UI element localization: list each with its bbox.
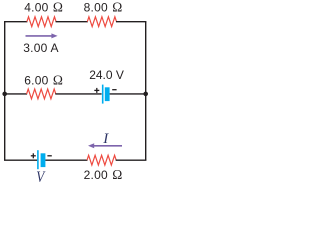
node B (right junction dot) <box>143 92 148 97</box>
resistor R2 8.00 ohm <box>87 17 116 27</box>
battery B2 V positive plate (long thin) <box>37 150 39 169</box>
wire middle branch left segment <box>4 93 27 95</box>
svg-text:I: I <box>102 131 109 147</box>
battery B1 plus sign <box>94 88 99 93</box>
battery B2 negative plate (short thick) <box>41 153 46 167</box>
svg-text:V: V <box>36 169 45 186</box>
node A (left junction dot) <box>2 92 7 97</box>
current arrow 3.00 A (points right) <box>26 33 58 38</box>
resistor R4 2.00 ohm <box>87 155 116 165</box>
wire bottom branch center segment <box>45 159 87 161</box>
wire top branch middle segment <box>56 21 88 23</box>
svg-text:4.00Ω: 4.00Ω <box>24 0 63 15</box>
battery B1 24.0 V positive plate (long thin) <box>102 85 104 104</box>
svg-text:24.0 V: 24.0 V <box>89 68 124 82</box>
wire middle branch center segment <box>55 93 101 95</box>
wire middle branch right segment <box>110 93 147 95</box>
battery B1 minus sign <box>112 89 116 91</box>
battery B2 minus sign <box>47 155 51 157</box>
battery B2 plus sign <box>31 153 36 158</box>
svg-text:8.00Ω: 8.00Ω <box>84 0 123 15</box>
svg-text:2.00Ω: 2.00Ω <box>84 167 123 182</box>
svg-text:6.00Ω: 6.00Ω <box>24 72 63 87</box>
svg-text:3.00 A: 3.00 A <box>23 41 59 55</box>
wire top branch right segment <box>116 21 146 23</box>
resistor R1 4.00 ohm <box>27 17 56 27</box>
wire right rail <box>145 22 147 161</box>
resistor R3 6.00 ohm <box>27 89 56 99</box>
wire left rail <box>4 22 6 161</box>
wire bottom branch right segment <box>116 159 147 161</box>
wire top branch left segment <box>4 21 27 23</box>
wire bottom branch left segment <box>4 159 37 161</box>
battery B1 negative plate (short thick) <box>105 87 110 101</box>
current arrow I (points left) <box>88 143 122 148</box>
